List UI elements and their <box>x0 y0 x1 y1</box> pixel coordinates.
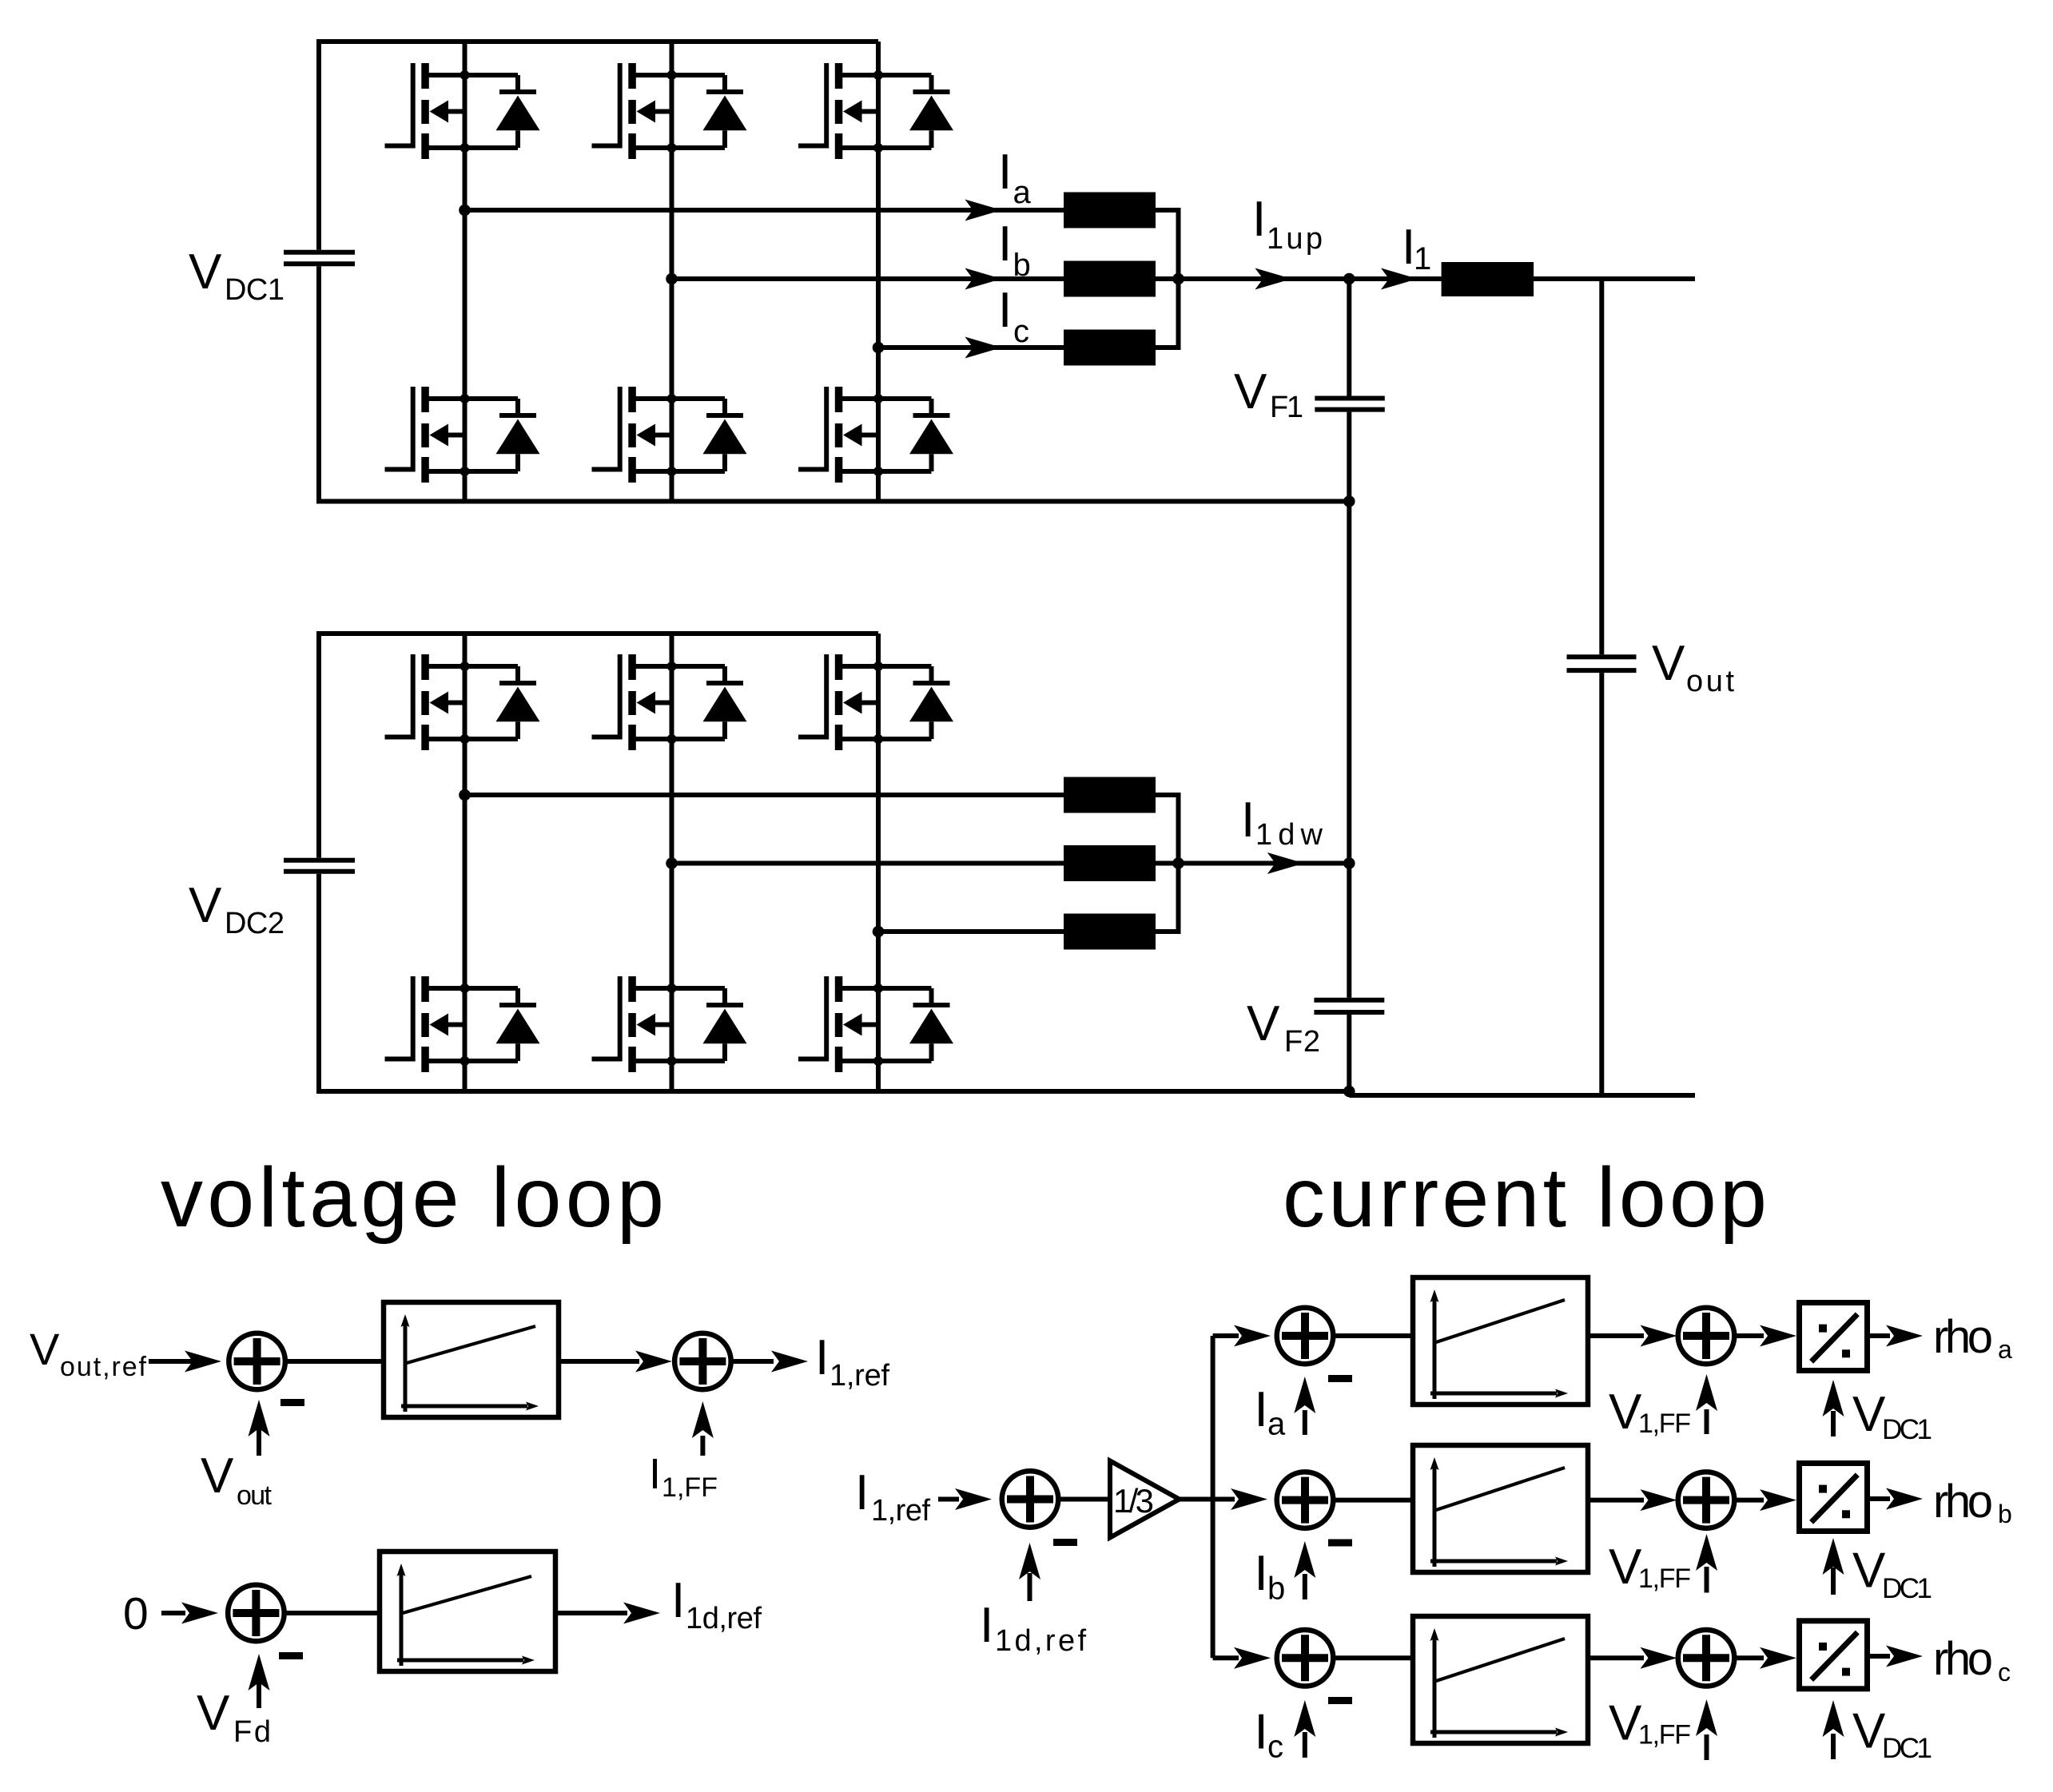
label V_1,FF row b <box>1609 1540 1691 1595</box>
svg-text:b: b <box>1013 248 1031 283</box>
label I_1up <box>1252 192 1323 256</box>
inductor L_a bridge1 phase a <box>1064 193 1156 228</box>
summing junction S5a (- I_a) <box>1277 1308 1334 1365</box>
label I_1,FF <box>649 1450 718 1503</box>
wire bridge1 leg b <box>670 42 674 502</box>
node bridge1 bottom rail junction <box>1343 495 1355 507</box>
svg-text:F1: F1 <box>1270 391 1303 424</box>
summing junction S3 (0 - V_Fd) <box>228 1585 284 1642</box>
wire I_b arrow into S5b <box>1294 1541 1315 1599</box>
label rho_a output <box>1933 1311 2012 1364</box>
PI controller block balancing loop <box>380 1552 555 1671</box>
svg-text:1,ref: 1,ref <box>871 1494 930 1528</box>
node bridge1 phase a <box>459 205 471 217</box>
wire PI b to S6b with arrow <box>1588 1489 1677 1511</box>
PI controller block phase c <box>1413 1616 1588 1743</box>
wire bridge2 output bus <box>1176 795 1181 932</box>
wire I_1 from junction to filter inductor <box>1349 276 1441 281</box>
svg-text:V: V <box>1852 1387 1886 1442</box>
label I_1,ref output <box>815 1330 889 1393</box>
wire bridge2 left rail (lower half) and bottom rail <box>319 874 1349 1091</box>
PI controller block phase a <box>1413 1277 1588 1405</box>
gain block 1/3 <box>1110 1461 1180 1538</box>
svg-text:V: V <box>197 1686 230 1741</box>
label V_Fd <box>197 1686 271 1749</box>
transistor Q9 bridge2 phase-c high-side MOSFET with body diode <box>798 654 953 750</box>
capacitor V_DC1 <box>284 252 355 264</box>
wire S1 to voltage PI block <box>285 1359 384 1364</box>
wire I_1dw <box>1179 861 1350 866</box>
wire V_out branch upper segment <box>1599 279 1604 654</box>
wire branch to S5a with arrow <box>1213 1325 1271 1347</box>
svg-text:1d,ref: 1d,ref <box>995 1624 1086 1658</box>
transistor Q4 bridge1 phase-a low-side MOSFET with body diode <box>385 387 540 483</box>
svg-text:I: I <box>815 1330 829 1385</box>
svg-text:1,ref: 1,ref <box>830 1359 889 1393</box>
inductor L_c2 bridge2 phase c <box>1064 914 1156 950</box>
svg-text:DC1: DC1 <box>1882 1414 1932 1445</box>
arrow current I_1up <box>1255 268 1291 290</box>
label I_1,ref input <box>855 1465 930 1528</box>
node junction I1up / I1 / VF1 <box>1343 273 1355 285</box>
wire PWM b output arrow <box>1870 1488 1923 1510</box>
wire zero input arrow <box>161 1603 218 1624</box>
summing junction S6c (+ V_1,FF) <box>1678 1630 1735 1687</box>
wire gain block to S5b with arrow <box>1180 1488 1267 1510</box>
svg-text:V: V <box>189 878 222 933</box>
arrow current I_a <box>965 200 1001 221</box>
wire I_a arrow into S5a <box>1294 1377 1315 1435</box>
svg-text:DC2: DC2 <box>225 907 284 940</box>
label V_DC2 <box>189 878 284 940</box>
svg-text:I: I <box>1241 793 1255 848</box>
label I_a feedback <box>1255 1382 1287 1442</box>
wire bridge2 leg c <box>876 634 881 1091</box>
node bus / I1up takeoff <box>1172 273 1184 285</box>
label V_DC1 row a <box>1852 1387 1932 1445</box>
wire V_DC1 arrow into PWM c <box>1823 1700 1844 1759</box>
summing junction S6b (+ V_1,FF) <box>1678 1472 1735 1528</box>
svg-text:I: I <box>998 217 1012 272</box>
label V_DC1 row b <box>1852 1544 1932 1605</box>
label I_b feedback <box>1255 1546 1286 1607</box>
svg-text:V: V <box>1609 1385 1642 1440</box>
svg-text:c: c <box>1998 1658 2011 1687</box>
wire V_out branch lower segment <box>1599 673 1604 1095</box>
wire bridge2 phase c output <box>878 929 1064 934</box>
label minus sign at S3 <box>279 1652 303 1659</box>
label V_out,ref <box>30 1324 147 1382</box>
label I_c feedback <box>1255 1705 1284 1765</box>
wire S3 to balancing PI block <box>284 1611 380 1615</box>
wire inductor Lc2 to bus <box>1156 929 1181 934</box>
arrow current I_1dw <box>1267 852 1304 874</box>
capacitor V_DC2 <box>284 860 355 872</box>
wire bridge1 leg a <box>463 42 467 502</box>
svg-text:V: V <box>1609 1540 1642 1595</box>
svg-text:out: out <box>237 1480 273 1511</box>
svg-text:V: V <box>1609 1696 1642 1751</box>
capacitor V_F2 <box>1314 1000 1384 1012</box>
label minus sign at S1 <box>280 1399 304 1406</box>
wire inductor Lc to bus <box>1156 345 1181 350</box>
svg-text:current loop: current loop <box>1283 1150 1767 1245</box>
wire bottom return rail to output <box>1349 1093 1695 1098</box>
node bridge2 phase b <box>666 857 678 869</box>
transistor Q3 bridge1 phase-c high-side MOSFET with body diode <box>798 63 953 159</box>
node bridge2 bottom rail junction <box>1343 1086 1355 1098</box>
svg-text:I: I <box>998 145 1012 200</box>
label V_out feedback <box>201 1448 273 1511</box>
wire PI c to S6c with arrow <box>1588 1647 1677 1669</box>
summing junction S5b (- I_b) <box>1277 1472 1334 1528</box>
wire V_1,FF arrow into S6c <box>1696 1699 1717 1760</box>
label I_1dw <box>1241 793 1323 852</box>
wire inductor La to bus <box>1156 208 1181 213</box>
label rho_b output <box>1933 1476 2012 1528</box>
wire S6a to PWM a with arrow <box>1735 1325 1797 1347</box>
wire PI block to S2 <box>559 1351 672 1373</box>
wire balancing PI output arrow <box>555 1603 660 1624</box>
wire bridge1 left rail (lower half) and bottom rail <box>319 266 1349 501</box>
label V_1,FF row c <box>1609 1696 1691 1751</box>
wire bridge1 top rail and left rail (upper half) <box>319 42 878 250</box>
wire S2 output arrow <box>731 1351 808 1373</box>
node bus2 / I1dw takeoff <box>1172 857 1184 869</box>
wire bridge2 leg b <box>670 634 674 1091</box>
wire V_DC1 arrow into PWM b <box>1823 1538 1844 1595</box>
PWM comparator block phase b <box>1800 1464 1868 1532</box>
svg-text:1dw: 1dw <box>1255 818 1323 852</box>
transistor Q6 bridge1 phase-c low-side MOSFET with body diode <box>798 387 953 483</box>
wire V_1,FF arrow into S6b <box>1696 1534 1717 1593</box>
label rho_c output <box>1933 1633 2011 1687</box>
summing junction S5c (- I_c) <box>1277 1630 1334 1687</box>
wire I_c arrow into S5c <box>1294 1700 1315 1758</box>
wire I_1,ref input arrow <box>938 1488 992 1510</box>
svg-text:DC1: DC1 <box>225 273 284 307</box>
wire bridge2 phase b output <box>672 861 1064 866</box>
summing junction S6a (+ V_1,FF) <box>1678 1308 1735 1365</box>
wire V_out feedback arrow into S1 <box>249 1400 270 1456</box>
capacitor V_F1 <box>1315 399 1385 410</box>
capacitor V_out <box>1567 657 1637 670</box>
wire bridge2 phase a output <box>465 793 1064 797</box>
label V_1,FF row a <box>1609 1385 1691 1440</box>
transistor Q2 bridge1 phase-b high-side MOSFET with body diode <box>592 63 747 159</box>
wire bridge1 output bus <box>1176 210 1181 348</box>
svg-text:rho: rho <box>1933 1311 1993 1363</box>
wire S5c to PI block c <box>1334 1655 1414 1660</box>
label I_1d,ref feedback <box>980 1598 1086 1658</box>
svg-text:1: 1 <box>1414 241 1431 276</box>
svg-text:rho: rho <box>1933 1476 1993 1528</box>
label V_out <box>1652 636 1734 698</box>
wire I_1up <box>1179 276 1350 281</box>
svg-text:1,FF: 1,FF <box>1638 1564 1691 1594</box>
wire VF1 to midpoint vertical <box>1347 412 1351 998</box>
arrow current I_1 <box>1381 268 1418 290</box>
PWM comparator block phase c <box>1800 1621 1868 1689</box>
svg-text:I: I <box>671 1573 685 1628</box>
svg-text:1up: 1up <box>1267 222 1323 256</box>
label I_a <box>998 145 1032 210</box>
summing junction S1 (Vout,ref - Vout) <box>229 1333 285 1390</box>
PI controller block phase b <box>1413 1445 1588 1572</box>
wire bridge2 top rail and left rail (upper half) <box>319 634 878 858</box>
wire bridge1 phase b output <box>672 276 1064 281</box>
wire PI a to S6a with arrow <box>1588 1325 1677 1347</box>
svg-text:V: V <box>1852 1544 1886 1599</box>
wire VF2 to bridge2 bottom rail <box>1347 1015 1351 1091</box>
node bridge1 phase c <box>873 342 885 354</box>
transistor Q12 bridge2 phase-c low-side MOSFET with body diode <box>798 976 953 1072</box>
label I_c <box>998 283 1029 349</box>
wire PWM a output arrow <box>1870 1325 1923 1347</box>
svg-text:1d,ref: 1d,ref <box>686 1602 762 1635</box>
PWM comparator block phase a <box>1800 1303 1868 1371</box>
arrow current I_b <box>965 268 1001 290</box>
svg-text:b: b <box>1998 1500 2012 1528</box>
wire I_1d,ref arrow into S4 <box>1019 1543 1040 1601</box>
wire V_DC1 arrow into PWM a <box>1823 1380 1844 1436</box>
wire bridge2 leg a <box>463 634 467 1091</box>
wire bridge1 phase a output <box>465 208 1064 213</box>
svg-text:I: I <box>1255 1705 1268 1760</box>
wire I_1,FF arrow into S2 <box>692 1401 714 1456</box>
wire S5a to PI block a <box>1334 1333 1414 1338</box>
svg-text:V: V <box>1247 996 1280 1051</box>
svg-text:voltage loop: voltage loop <box>161 1150 664 1245</box>
label minus sign at S5b <box>1328 1540 1352 1547</box>
transistor Q8 bridge2 phase-b high-side MOSFET with body diode <box>592 654 747 750</box>
wire inductor Lb2 to bus <box>1156 861 1181 866</box>
svg-text:V: V <box>1652 636 1685 691</box>
transistor Q11 bridge2 phase-b low-side MOSFET with body diode <box>592 976 747 1072</box>
transistor Q5 bridge1 phase-b low-side MOSFET with body diode <box>592 387 747 483</box>
svg-text:DC1: DC1 <box>1882 1573 1932 1604</box>
svg-text:a: a <box>1013 175 1032 210</box>
node bridge2 phase c <box>873 926 885 938</box>
svg-text:V: V <box>189 244 222 300</box>
transistor Q10 bridge2 phase-a low-side MOSFET with body diode <box>385 976 540 1072</box>
arrow current I_c <box>965 337 1001 359</box>
svg-text:V: V <box>1234 364 1267 419</box>
wire S5b to PI block b <box>1334 1498 1414 1503</box>
label V_DC1 <box>189 244 284 307</box>
svg-text:I: I <box>998 283 1012 338</box>
label I_1d,ref output <box>671 1573 762 1635</box>
PI controller block voltage loop <box>384 1302 559 1417</box>
label minus sign at S5c <box>1328 1697 1352 1704</box>
wire bridge1 leg c <box>876 42 881 502</box>
wire inductor Lb to bus <box>1156 276 1181 281</box>
wire S4 to gain block <box>1059 1497 1111 1502</box>
svg-text:I: I <box>649 1450 661 1498</box>
svg-text:1,FF: 1,FF <box>1638 1409 1691 1439</box>
transistor Q1 bridge1 phase-a high-side MOSFET with body diode <box>385 63 540 159</box>
svg-text:I: I <box>1252 192 1266 247</box>
svg-text:I: I <box>855 1465 869 1520</box>
node bridge1 phase b <box>666 273 678 285</box>
svg-text:0: 0 <box>123 1588 149 1639</box>
wire S6c to PWM c with arrow <box>1735 1647 1797 1669</box>
label V_F1 <box>1234 364 1303 424</box>
svg-text:c: c <box>1267 1730 1283 1765</box>
svg-text:a: a <box>1998 1335 2012 1364</box>
label I_1 <box>1402 220 1431 276</box>
svg-text:I: I <box>1255 1546 1268 1601</box>
svg-text:V: V <box>1852 1704 1886 1759</box>
summing junction S2 (+ I_1,FF) <box>674 1333 731 1390</box>
inductor L_b2 bridge2 phase b <box>1064 845 1156 881</box>
inductor L_c bridge1 phase c <box>1064 330 1156 366</box>
node bridge2 phase a <box>459 789 471 801</box>
wire branch vertical to rows a and c <box>1211 1336 1215 1658</box>
wire VF1 branch upper segment <box>1347 279 1351 396</box>
svg-text:1/3: 1/3 <box>1113 1482 1154 1520</box>
svg-text:a: a <box>1267 1407 1286 1442</box>
svg-text:out,ref: out,ref <box>60 1352 147 1382</box>
svg-text:I: I <box>1255 1382 1268 1437</box>
wire inductor La2 to bus <box>1156 793 1181 797</box>
svg-text:V: V <box>201 1448 234 1504</box>
wire inductor L1 to output node <box>1534 276 1695 281</box>
svg-text:b: b <box>1267 1571 1285 1607</box>
svg-text:out: out <box>1686 665 1734 698</box>
label V_F2 <box>1247 996 1320 1059</box>
label V_DC1 row c <box>1852 1704 1932 1765</box>
wire branch to S5c with arrow <box>1213 1647 1271 1669</box>
wire S6b to PWM b with arrow <box>1735 1489 1797 1511</box>
label I_b <box>998 217 1031 283</box>
label minus sign at S5a <box>1328 1375 1352 1382</box>
wire V_1,FF arrow into S6a <box>1696 1374 1717 1434</box>
svg-text:DC1: DC1 <box>1882 1733 1932 1764</box>
svg-text:1,FF: 1,FF <box>1638 1720 1691 1750</box>
svg-text:F2: F2 <box>1284 1025 1320 1059</box>
svg-text:1,FF: 1,FF <box>662 1472 718 1503</box>
transistor Q7 bridge2 phase-a high-side MOSFET with body diode <box>385 654 540 750</box>
inductor L_b bridge1 phase b <box>1064 261 1156 297</box>
inductor L_1 output filter <box>1442 262 1534 296</box>
node I1dw junction <box>1343 857 1355 869</box>
label minus sign at S4 <box>1053 1539 1077 1546</box>
svg-text:rho: rho <box>1933 1633 1993 1685</box>
wire Vout,ref input arrow <box>149 1351 221 1373</box>
wire V_Fd arrow into S3 <box>249 1654 270 1708</box>
summing junction S4 (I_1,ref - I_1d,ref) <box>1002 1471 1059 1528</box>
svg-text:I: I <box>980 1598 993 1653</box>
svg-text:V: V <box>30 1324 60 1374</box>
svg-text:c: c <box>1013 314 1029 349</box>
inductor L_a2 bridge2 phase a <box>1064 777 1156 813</box>
wire PWM c output arrow <box>1870 1646 1923 1667</box>
wire bridge1 phase c output <box>878 345 1064 350</box>
